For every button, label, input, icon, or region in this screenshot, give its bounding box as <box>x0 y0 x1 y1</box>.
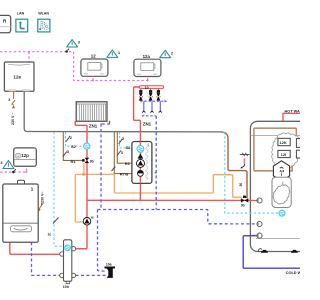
switch 3 radiator <box>63 152 67 157</box>
svg-text:R1: R1 <box>125 161 131 166</box>
pink dashed bus top <box>0 52 148 81</box>
partial boxes right edge <box>296 139 302 148</box>
switch on cyan separator wire <box>53 218 59 224</box>
12e 230V supply <box>8 91 15 125</box>
wire pink stub to 12a <box>147 77 149 81</box>
wire cyan ZN1 sensor S2 <box>120 132 137 148</box>
warning triangle 2 <box>160 50 173 57</box>
cloud <box>272 133 301 169</box>
wire brown ZN1 R1 <box>117 132 135 163</box>
box 12l <box>278 150 290 157</box>
wire cyan to tank sensor <box>224 132 279 213</box>
pump group ZN1 <box>132 142 152 184</box>
wire blue return main to tank port <box>98 210 257 224</box>
wire brown continuation to tank valve <box>221 132 247 198</box>
pump 10a <box>105 262 116 278</box>
wire blue radiator return drop <box>109 121 111 124</box>
svg-text:10h: 10h <box>63 285 69 289</box>
switch 2 ZN1 <box>119 139 123 144</box>
mixing valve R7/8 <box>138 171 144 177</box>
pipe blue cold water solid <box>243 236 300 269</box>
svg-text:2: 2 <box>171 51 173 55</box>
svg-text:R1: R1 <box>71 159 77 164</box>
wire orange from valve 9b actuator <box>83 163 85 174</box>
svg-text:1: 1 <box>118 51 120 55</box>
radiator sensor S2 circle <box>84 143 90 149</box>
wire blue boiler return <box>32 242 61 275</box>
wire pink stub to 12e <box>28 52 30 62</box>
floor heating manifold ZN1 <box>139 86 167 127</box>
manifold valve 3 <box>157 90 161 101</box>
svg-text:1e: 1e <box>48 233 52 237</box>
tank inner bottom line <box>256 238 300 240</box>
drain curl <box>258 249 261 252</box>
svg-text:2: 2 <box>70 136 72 140</box>
canister <box>272 177 291 207</box>
wire brown ZN1 R7/8 <box>114 132 136 174</box>
svg-text:12l: 12l <box>281 152 287 157</box>
pink junction dots <box>26 51 149 173</box>
svg-text:HOT WA: HOT WA <box>285 110 300 114</box>
svg-text:WLAN: WLAN <box>38 12 49 16</box>
svg-text:12K: 12K <box>279 140 286 145</box>
svg-text:10: 10 <box>145 86 149 90</box>
warning triangle 3 at 12p <box>0 161 14 169</box>
svg-text:S2: S2 <box>126 145 132 150</box>
tank inner top line <box>250 135 300 137</box>
tan lining pipe <box>254 128 296 171</box>
tank sensor <box>279 210 285 216</box>
shower glyph in hexagon <box>280 167 284 175</box>
HOT WATER outlet <box>283 110 300 122</box>
svg-text:S2: S2 <box>71 144 77 149</box>
hydraulic separator 10h <box>60 240 76 289</box>
svg-text:12: 12 <box>91 54 96 59</box>
radiator ZN1 <box>76 102 107 129</box>
tank feet <box>262 250 297 252</box>
svg-text:3: 3 <box>67 150 69 154</box>
warning triangle 3 top <box>67 40 80 47</box>
valve pinch red dots <box>139 96 161 97</box>
tank ports <box>257 198 262 203</box>
boiler 230V supply <box>38 192 44 212</box>
pipe red separator to pump riser <box>76 248 87 250</box>
wire cyan radiator sensor S2 <box>66 132 84 146</box>
svg-text:12p: 12p <box>21 153 29 158</box>
svg-text:230 V ~: 230 V ~ <box>11 113 15 126</box>
svg-text:230 V~: 230 V~ <box>41 192 45 204</box>
check valve <box>137 154 143 159</box>
svg-text:10a: 10a <box>106 262 112 266</box>
manifold valve 1 <box>139 90 143 101</box>
valve stubs red <box>141 88 159 90</box>
wire orange pump/valve control <box>75 163 242 222</box>
tank sensor and ports overlay <box>257 198 285 238</box>
switch 3 ZN1 <box>117 151 121 156</box>
wire blue ZN1 return riser <box>155 116 157 210</box>
loop pipes blue <box>144 101 161 111</box>
valve 9b at tank <box>241 196 248 208</box>
12e controller <box>4 62 34 91</box>
svg-text:COLD W: COLD W <box>286 271 300 275</box>
blob <box>273 185 290 204</box>
svg-text:12a: 12a <box>143 54 151 59</box>
remote 12p <box>14 148 37 166</box>
wire blue return down to 10a <box>98 210 106 272</box>
orange junction dot <box>82 173 85 176</box>
warning triangle 1 <box>107 50 120 57</box>
wire blue separator to 10a <box>76 274 106 276</box>
pipe blue dashed return main <box>32 116 257 275</box>
pipe red boiler to separator <box>10 242 60 254</box>
safety group on tank <box>240 153 250 169</box>
svg-text:20: 20 <box>239 183 243 187</box>
return collector blue dashed <box>142 116 156 118</box>
wire orange to tank charging valve 9b <box>84 174 242 197</box>
wire brown radiator R1 <box>63 132 82 160</box>
wire gray bus from 12e <box>24 91 221 132</box>
manifold blue dashed collector <box>140 100 164 102</box>
svg-text:ZN1: ZN1 <box>143 122 152 127</box>
radiator valve 9b R1 <box>82 158 94 164</box>
LAN icon <box>16 12 28 32</box>
svg-text:ZN1: ZN1 <box>89 123 98 128</box>
switch R7/8 <box>112 167 116 172</box>
svg-text:9b: 9b <box>241 203 245 207</box>
S node top <box>65 49 69 53</box>
wire pink stub to 12 <box>92 77 94 81</box>
wire pink radio link main run <box>0 52 148 81</box>
boiler pump M <box>83 215 94 225</box>
group pump R1 <box>137 159 145 167</box>
switch 2 radiator <box>66 136 70 142</box>
wire cyan to separator sensor <box>54 132 64 246</box>
svg-text:3: 3 <box>121 151 123 155</box>
thermostat 12 <box>81 54 108 77</box>
svg-text:LAN: LAN <box>17 12 25 16</box>
pipe red main horizontal <box>87 199 257 201</box>
svg-text:3: 3 <box>0 161 2 165</box>
DHW tank <box>250 121 306 252</box>
svg-text:12e: 12e <box>13 75 21 80</box>
router R <box>0 15 11 32</box>
manifold valve 2 <box>149 90 153 101</box>
pink dashed 12p <box>0 167 27 172</box>
S node 12p <box>12 169 16 173</box>
wire orange to pump M <box>75 174 84 222</box>
svg-text:2: 2 <box>122 137 124 141</box>
wire blue R7/8 valve link <box>144 172 156 174</box>
box 12K <box>278 138 290 145</box>
manifold red bus 10 <box>140 86 164 89</box>
boiler 1 <box>3 180 38 242</box>
svg-text:R7/8: R7/8 <box>120 171 129 176</box>
pipe red ZN1 zone <box>134 87 141 142</box>
svg-text:9b: 9b <box>90 160 94 164</box>
tank shell <box>250 121 306 251</box>
pipe red vertical boiler circuit <box>75 121 87 249</box>
svg-text:3: 3 <box>8 98 10 102</box>
hexagon <box>273 161 289 181</box>
thermostat 12a <box>134 54 161 77</box>
WLAN icon <box>38 12 50 32</box>
loop feet <box>142 111 162 113</box>
svg-text:3: 3 <box>78 41 80 45</box>
